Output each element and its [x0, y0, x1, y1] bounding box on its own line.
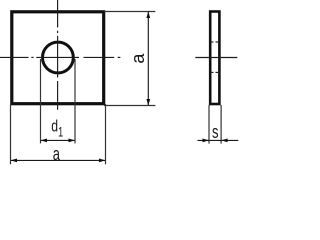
svg-text:a: a — [53, 145, 60, 165]
extension lines for s dimension — [209, 105, 221, 144]
bottom "a" dimension line with arrows — [11, 159, 105, 161]
right-side "a" dimension line with arrows — [147, 12, 149, 105]
washer front view: outer square — [12, 12, 104, 104]
s dimension line with outside arrows — [198, 139, 239, 141]
svg-text:d: d — [51, 118, 58, 136]
horizontal centerline (dash-dot) — [0, 56, 120, 58]
washer front view: hole circle — [43, 42, 74, 73]
extension lines for right-side "a" dimension — [104, 12, 155, 106]
d1 dimension line with arrows — [41, 139, 75, 141]
extension lines for d1 dimension — [41, 59, 76, 143]
side view: horizontal centerline — [195, 57, 237, 59]
side view: hidden hole edge lines — [210, 42, 218, 72]
svg-text:1: 1 — [58, 123, 63, 140]
extension lines for bottom "a" dimension — [11, 104, 106, 164]
vertical centerline (dash-dot) — [57, 0, 59, 110]
svg-text:a: a — [128, 53, 148, 64]
svg-text:s: s — [212, 123, 218, 143]
side view: rectangle — [210, 12, 219, 105]
